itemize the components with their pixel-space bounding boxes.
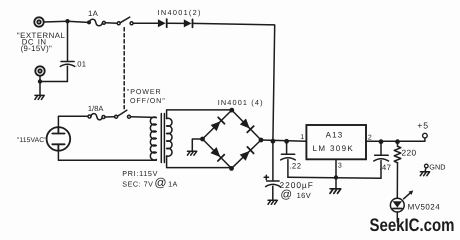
svg-text:+5: +5 xyxy=(417,120,429,130)
ground xyxy=(187,151,196,155)
switch S1a xyxy=(117,17,133,25)
capacitor C3 .22 xyxy=(281,141,296,177)
wire main rail bridge to regulator xyxy=(261,140,306,141)
svg-text:.22: .22 xyxy=(289,161,301,170)
svg-text:220: 220 xyxy=(402,148,417,158)
ground xyxy=(268,200,277,204)
node bridge bottom xyxy=(229,166,234,171)
wire terminal stub xyxy=(39,76,41,82)
svg-text:1A: 1A xyxy=(88,9,99,18)
ground xyxy=(420,172,429,176)
wire VAC top to fuse xyxy=(58,116,88,127)
transformer T1 core xyxy=(161,114,164,163)
wire fuse to switch xyxy=(105,116,115,118)
terminal J2 external DC - xyxy=(35,66,44,75)
label "POWER OFF/ON" xyxy=(127,88,166,105)
svg-text:2: 2 xyxy=(368,134,372,141)
LED arrow xyxy=(404,190,414,198)
wire switch to transformer xyxy=(131,116,157,119)
switch S1b xyxy=(115,110,131,118)
transformer T1 secondary xyxy=(167,118,172,156)
diode D2 IN4001 xyxy=(184,19,193,27)
svg-text:"115VAC": "115VAC" xyxy=(17,137,47,144)
svg-text:IN4001 (4): IN4001 (4) xyxy=(218,98,264,107)
node bridge top xyxy=(229,108,234,113)
transformer T1 primary xyxy=(150,117,156,160)
ground xyxy=(330,189,341,194)
node 220 junction xyxy=(395,139,400,144)
label "EXTERNAL DC IN (9-15V)" xyxy=(17,31,66,53)
svg-text:.01: .01 xyxy=(75,59,86,68)
svg-text:3: 3 xyxy=(338,163,342,170)
wire GND stub xyxy=(424,168,427,172)
svg-text:MV5024: MV5024 xyxy=(408,203,441,212)
bridge rectifier IN4001(4) edges xyxy=(203,110,262,168)
svg-text:1: 1 xyxy=(300,134,304,141)
svg-text:GND: GND xyxy=(429,163,445,172)
bridge diode top-right xyxy=(240,118,254,132)
diode D1 IN4001 xyxy=(158,19,167,27)
capacitor C2 2200uF xyxy=(266,141,281,200)
ground xyxy=(35,95,44,99)
bridge diode bottom-right xyxy=(240,147,254,161)
resistor R1 220 xyxy=(394,142,401,163)
svg-text:IN4001(2): IN4001(2) xyxy=(158,8,202,17)
wire switch to D1 xyxy=(133,22,158,24)
wire ground stub xyxy=(39,82,41,96)
node rail .22 junction xyxy=(284,139,289,144)
svg-text:SeekIC.com: SeekIC.com xyxy=(370,215,455,235)
svg-text:PRI:115V: PRI:115V xyxy=(122,169,158,178)
node pin3 junction xyxy=(334,175,338,179)
wire secondary bottom to bridge xyxy=(167,156,232,168)
source V1 115VAC xyxy=(47,127,71,151)
polarity + mark xyxy=(264,175,268,179)
wire VAC bottom to primary xyxy=(58,151,156,161)
svg-text:A13: A13 xyxy=(326,131,344,140)
svg-text:"POWER: "POWER xyxy=(127,88,162,96)
LED DS1 MV5024 xyxy=(390,198,404,222)
wire D1 to D2 xyxy=(167,22,184,24)
fuse F1 1A xyxy=(87,19,105,25)
wire fuse to switch xyxy=(105,22,117,24)
node junction xyxy=(38,79,42,83)
capacitor C4 .47 xyxy=(374,142,389,179)
terminal GND xyxy=(425,164,429,168)
bridge diode top-left xyxy=(210,117,224,131)
node bridge left xyxy=(200,137,205,142)
node .47 junction xyxy=(379,139,384,144)
wire D2 to corner down to rail xyxy=(193,23,275,141)
svg-text:(9-15V)": (9-15V)" xyxy=(21,44,53,53)
wire pin3 to ground xyxy=(335,178,337,189)
wire bottom rail xyxy=(288,177,381,178)
svg-text:1/8A: 1/8A xyxy=(88,104,103,113)
node rail-DC junction xyxy=(271,139,276,144)
svg-text:LM 309K: LM 309K xyxy=(313,144,354,153)
wire terminal to node xyxy=(44,20,68,23)
svg-text:.47: .47 xyxy=(379,163,391,172)
wire output rail xyxy=(366,138,425,141)
terminal +5 xyxy=(423,133,428,138)
node junction top-left xyxy=(65,19,69,23)
terminal J1 external DC + xyxy=(34,17,43,26)
wire pin3 stub xyxy=(335,159,337,177)
svg-text:OFF/ON": OFF/ON" xyxy=(130,97,166,105)
capacitor C1 .01 xyxy=(60,21,74,81)
regulator U1 A13 LM309K xyxy=(306,125,366,159)
wire secondary top to bridge xyxy=(167,110,232,119)
wire bridge left to ground xyxy=(192,139,202,151)
wire node to fuse xyxy=(68,21,88,22)
wire bottom link xyxy=(40,81,67,83)
node bridge right xyxy=(259,138,264,143)
bridge diode bottom-left xyxy=(210,147,224,161)
fuse F2 1/8A xyxy=(88,114,105,120)
wire resistor to LED xyxy=(396,163,398,198)
switch gang link dashed xyxy=(123,28,125,109)
svg-text:@16V: @16V xyxy=(280,189,311,201)
